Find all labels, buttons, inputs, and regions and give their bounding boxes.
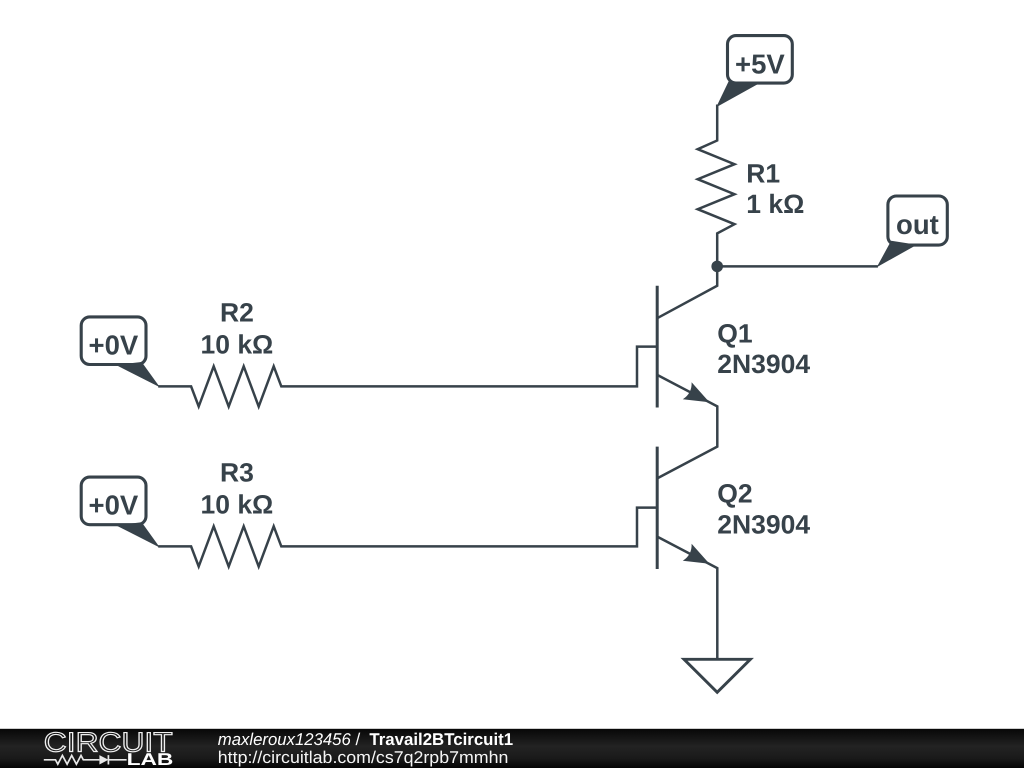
svg-text:R3: R3	[220, 458, 254, 488]
svg-text:out: out	[896, 209, 939, 240]
svg-text:/: /	[356, 730, 361, 749]
svg-text:http://circuitlab.com/cs7q2rpb: http://circuitlab.com/cs7q2rpb7mmhn	[218, 748, 509, 767]
svg-text:LAB: LAB	[127, 750, 174, 768]
svg-text:R1: R1	[746, 158, 780, 188]
svg-text:Q1: Q1	[717, 318, 752, 348]
svg-text:Travail2BTcircuit1: Travail2BTcircuit1	[369, 730, 513, 749]
svg-text:1 kΩ: 1 kΩ	[746, 189, 804, 219]
svg-text:R2: R2	[220, 297, 254, 327]
svg-text:2N3904: 2N3904	[717, 349, 810, 379]
svg-text:maxleroux123456: maxleroux123456	[218, 730, 352, 749]
svg-text:+0V: +0V	[89, 490, 139, 521]
svg-text:10 kΩ: 10 kΩ	[200, 490, 273, 520]
svg-text:10 kΩ: 10 kΩ	[200, 329, 273, 359]
svg-text:Q2: Q2	[717, 479, 752, 509]
svg-text:2N3904: 2N3904	[717, 509, 810, 539]
svg-text:+0V: +0V	[89, 329, 139, 360]
svg-text:+5V: +5V	[735, 48, 785, 79]
